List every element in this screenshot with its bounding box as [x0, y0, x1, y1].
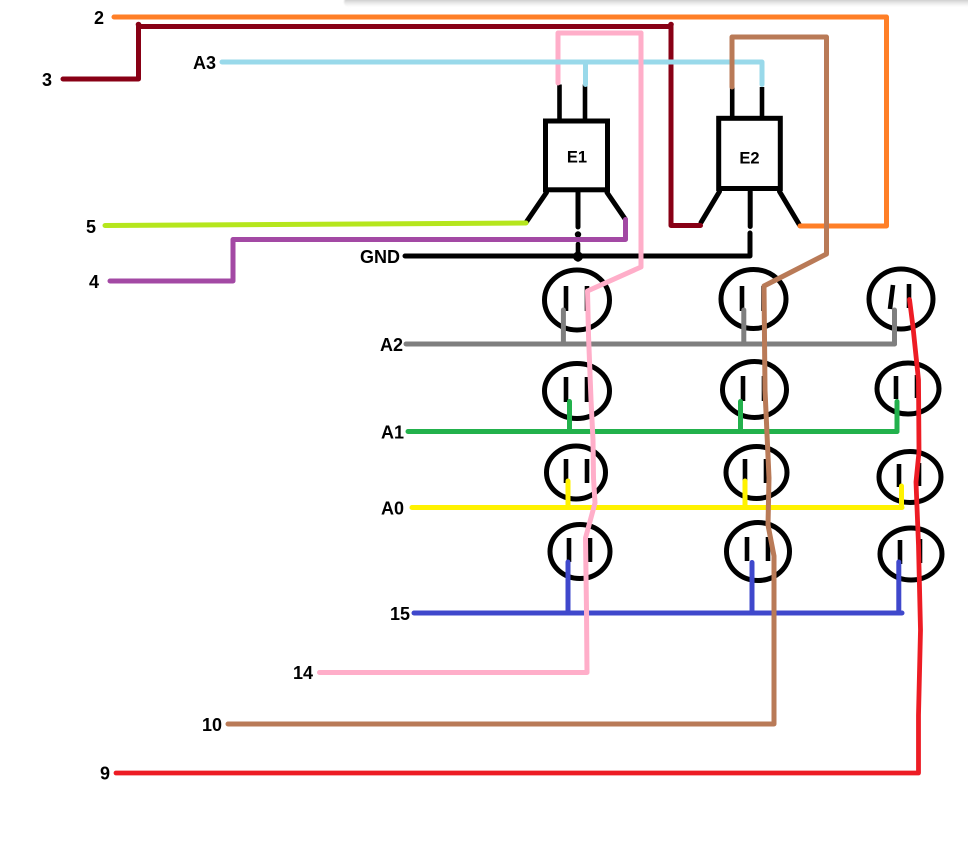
E1 body	[546, 121, 608, 190]
svg-text:10: 10	[202, 715, 222, 735]
E2 pin top-right	[760, 87, 765, 117]
A2 stub socket J1	[561, 310, 566, 344]
svg-text:E1: E1	[567, 149, 587, 167]
socket J7 (row3 col1)	[547, 446, 606, 499]
socket J6 (row2 col3)	[877, 363, 939, 414]
15 stub socket J12	[896, 562, 901, 613]
wire 4 (purple)	[110, 220, 626, 282]
A0 stub socket J9	[899, 486, 904, 508]
wire GND (black)	[405, 233, 750, 262]
wire 15 (blue)	[414, 562, 902, 613]
socket J5 (row2 col2)	[723, 362, 787, 418]
svg-text:2: 2	[94, 8, 104, 28]
E1 pin top-left	[557, 85, 562, 120]
svg-text:15: 15	[390, 604, 410, 624]
socket J8 (row3 col2)	[726, 447, 787, 499]
svg-text:A1: A1	[381, 423, 404, 443]
wire 5 (yellow-green)	[105, 223, 526, 226]
A0 stub socket J8	[743, 481, 748, 508]
corner blob	[136, 22, 142, 28]
socket J4 (row2 col1)	[545, 364, 610, 419]
junction dot GND x E1 middle pin	[573, 252, 583, 262]
connector E1	[526, 85, 626, 260]
svg-text:9: 9	[100, 764, 110, 784]
svg-text:E2: E2	[739, 150, 759, 168]
A1 stub socket J5	[738, 402, 743, 432]
wire A1 (green)	[408, 402, 897, 432]
svg-text:A3: A3	[193, 53, 216, 73]
15 stub socket J11	[750, 563, 755, 614]
svg-text:A2: A2	[380, 335, 403, 355]
E2 leg bottom-left	[701, 192, 720, 223]
socket J3 (row1 col3)	[869, 269, 933, 329]
E1 leg bottom-left	[526, 193, 547, 223]
svg-text:A0: A0	[381, 499, 404, 519]
A3 stub to E1 pin	[583, 62, 588, 85]
svg-text:5: 5	[86, 217, 96, 237]
E2 body	[719, 118, 781, 188]
wire 3 (dark red)	[63, 22, 701, 226]
E1 leg bottom-middle (dashed)	[576, 192, 581, 227]
E1 pin top-right	[583, 85, 588, 120]
wire 14 pink segment under A3	[558, 33, 641, 83]
svg-text:4: 4	[89, 272, 99, 292]
wire A2 (gray)	[406, 310, 895, 344]
socket J11 (row4 col2)	[727, 523, 790, 581]
A0 stub socket J7	[566, 481, 571, 508]
connector E2	[701, 87, 800, 227]
window-edge gray bar	[344, 0, 968, 7]
wire A0 (yellow)	[412, 481, 902, 508]
svg-text:GND: GND	[360, 247, 400, 267]
socket J10 (row4 col1)	[550, 525, 610, 579]
A2 stub socket J3	[892, 310, 897, 344]
svg-text:14: 14	[293, 663, 313, 683]
A1 stub socket J6	[895, 402, 900, 432]
E2 leg bottom-middle (broken)	[748, 192, 753, 227]
svg-text:3: 3	[42, 70, 52, 90]
A1 stub socket J4	[567, 402, 572, 432]
E1 leg bottom-right	[607, 193, 626, 220]
15 stub socket J10	[566, 562, 571, 613]
wire 14 (pink) main run	[320, 33, 642, 673]
E2 leg bottom-right	[780, 192, 800, 226]
wire 10 (brown)	[228, 37, 827, 724]
socket J2 (row1 col2)	[721, 270, 786, 329]
E2 pin top-left	[730, 87, 735, 117]
socket J9 (row3 col3)	[879, 452, 941, 503]
wire 2 (orange)	[114, 17, 887, 226]
socket J1 (row1 col1)	[545, 270, 610, 330]
wire 9 (red)	[116, 300, 921, 774]
wire A3 (light blue)	[222, 62, 762, 85]
socket J12 (row4 col3)	[880, 528, 942, 580]
A2 stub socket J2	[741, 310, 746, 344]
